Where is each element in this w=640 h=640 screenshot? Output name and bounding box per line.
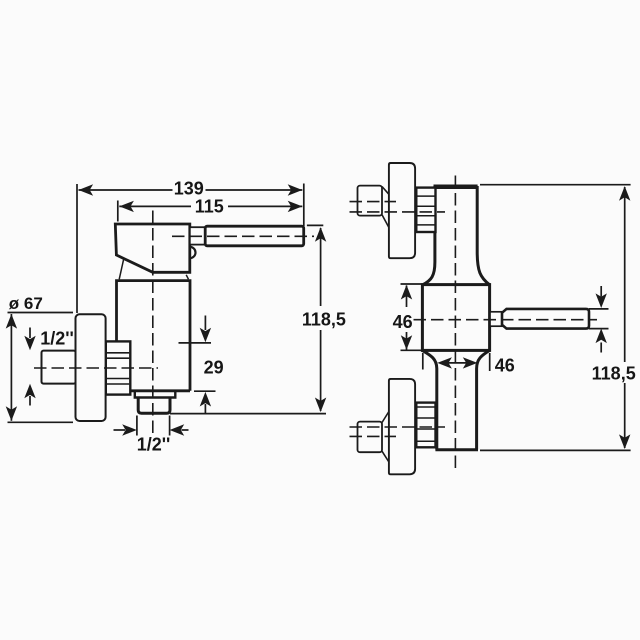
lever hub [190, 227, 205, 244]
dim 115 arrow left [119, 201, 134, 212]
neck line left [119, 259, 124, 280]
body bottom edge [130, 389, 190, 392]
dim 139 arrow right [288, 184, 303, 195]
top tube [423, 188, 490, 285]
top assembly centerlines [350, 201, 397, 203]
top knurled nut [416, 188, 435, 232]
dim 115 arrow right [288, 201, 303, 212]
inlet pipe (side view) [42, 351, 76, 384]
dim ø67 arrow down [6, 406, 17, 421]
dim 115 extension line left [117, 201, 119, 222]
dim 29 reference lines [179, 343, 216, 391]
svg-text:118,5: 118,5 [592, 364, 636, 384]
bottom wall flange [389, 379, 415, 474]
top tube top edge [434, 185, 478, 188]
bottom tube bottom edge [435, 448, 478, 451]
svg-text:118,5: 118,5 [302, 310, 346, 330]
cartridge head (side view) [115, 224, 190, 272]
wall flange (side view) [76, 314, 106, 421]
dim 115 line [119, 205, 302, 207]
top wall flange [389, 163, 415, 258]
dim 118,5 right extension lines [480, 185, 631, 451]
bottom-left pipe hex [358, 422, 383, 453]
bottom union cone lines [382, 412, 389, 463]
outlet step 1 [135, 391, 176, 398]
top-left pipe hex [358, 186, 383, 216]
dim 139 arrow left [79, 184, 94, 195]
svg-text:29: 29 [204, 358, 224, 378]
pivot arc bump [190, 247, 196, 258]
centerline lever left view [172, 235, 314, 237]
body step line [117, 342, 130, 391]
centerline vertical left view [152, 211, 154, 434]
dim 118,5 left: top extension [307, 224, 323, 226]
lever thickness arrow down [600, 286, 602, 297]
dim 1/2 top arrow down [29, 328, 31, 339]
centerline vertical right view [454, 176, 456, 471]
dim 29 arrow down [204, 316, 206, 331]
neck line right [186, 275, 188, 280]
main body (side view) [117, 281, 191, 391]
svg-text:ø 67: ø 67 [9, 294, 43, 313]
dim 46 vertical extension lines [401, 284, 422, 350]
svg-text:1/2'': 1/2'' [137, 435, 171, 455]
dim 46 horizontal extension lines [423, 353, 490, 371]
svg-text:46: 46 [495, 355, 515, 375]
center box [422, 285, 489, 351]
lever bar (side view) [205, 226, 304, 246]
svg-text:46: 46 [393, 312, 413, 332]
lever thickness arrow up [600, 343, 602, 353]
lever bar (front view) [502, 309, 589, 329]
dim 46 vertical line [406, 286, 408, 350]
dim 118,5 left: bottom baseline [170, 413, 326, 415]
nut ridge lines [107, 353, 130, 384]
dim 139 extension line left [76, 184, 78, 313]
bottom flare and tube [422, 350, 489, 449]
outlet step 2 [138, 398, 170, 414]
svg-text:115: 115 [195, 197, 224, 217]
bottom assembly centerlines [350, 426, 446, 428]
dim 139/115 shared extension line right [303, 184, 305, 227]
dim 139 line [79, 189, 303, 191]
dim 1/2 top arrow up [29, 396, 31, 406]
top union cone lines [382, 187, 389, 228]
dim 1/2 bottom arrows [114, 429, 126, 431]
dim ø67 extension lines [8, 313, 74, 423]
dim 118,5 left arrows [315, 227, 326, 242]
centerline pipe left view [34, 367, 158, 369]
svg-text:139: 139 [174, 178, 204, 198]
dim 29 arrow up [204, 404, 206, 413]
centerline lever right view [414, 319, 598, 321]
dim 46 horizontal double arrow [448, 362, 467, 364]
dim 1/2 bottom extension lines [137, 416, 170, 436]
knurled nut left view [106, 341, 131, 394]
svg-text:1/2'': 1/2'' [40, 329, 74, 349]
dim ø67 arrow up [6, 314, 17, 329]
bottom knurled nut [416, 403, 435, 448]
dim 118,5 right line [624, 187, 626, 448]
dim 118,5 left line [320, 228, 322, 411]
lever thickness extension lines [589, 309, 609, 329]
dim ø67 line [10, 314, 12, 421]
lever connector (front view) [490, 312, 502, 326]
